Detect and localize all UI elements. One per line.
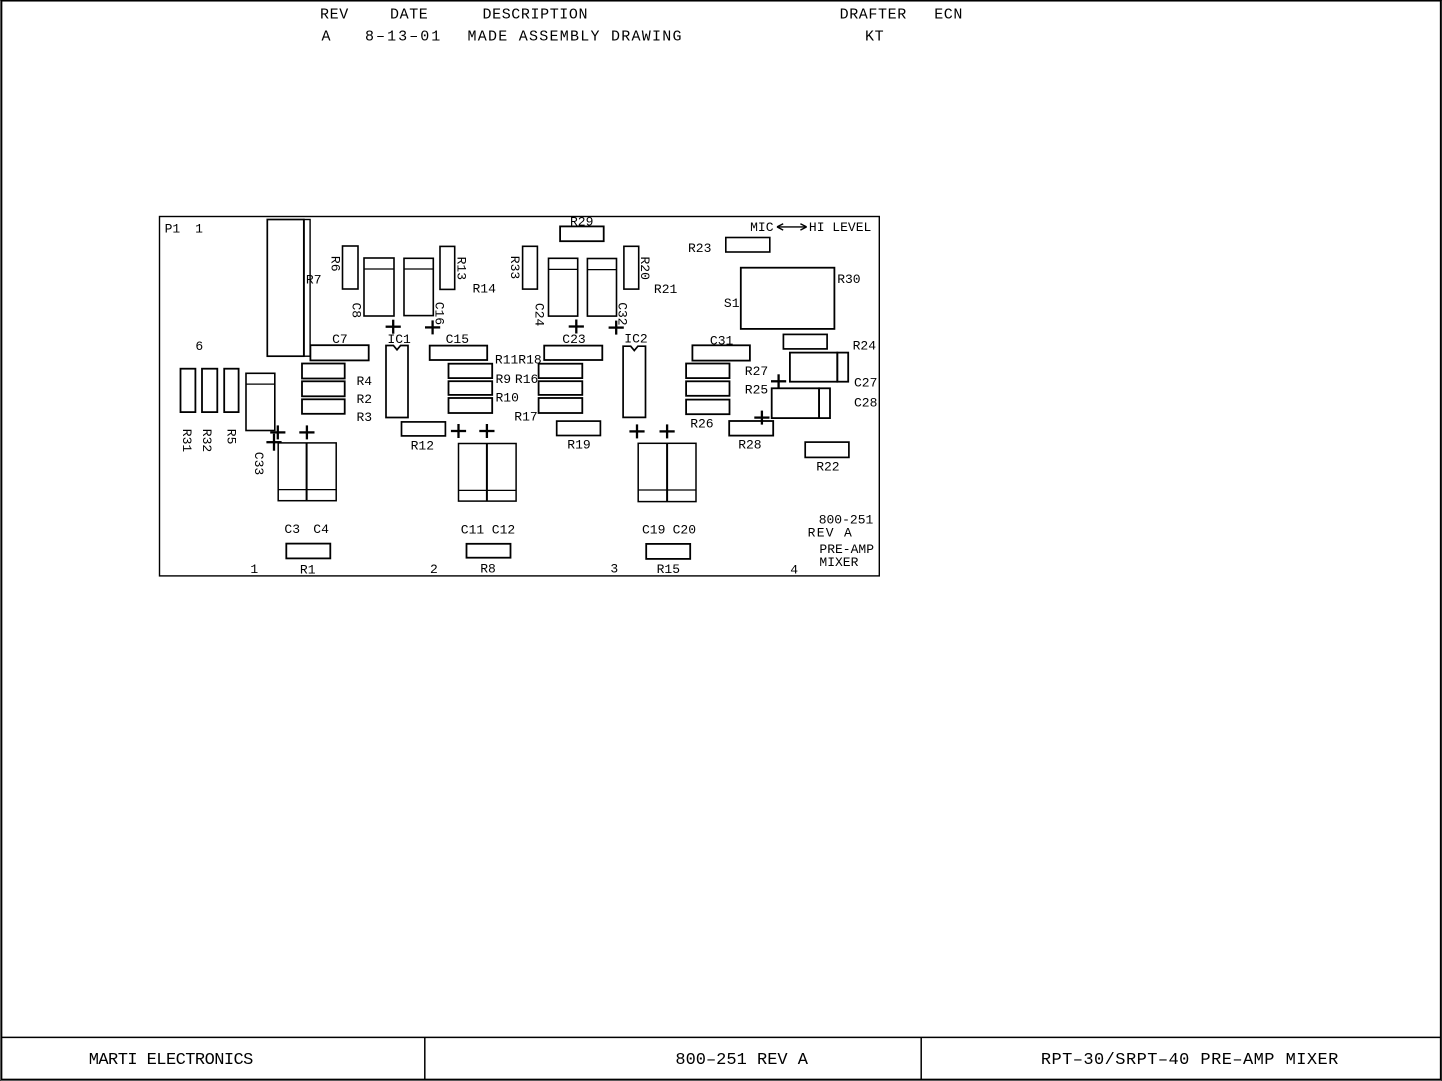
footer strip top line	[2, 1036, 1441, 1038]
capacitor C16	[404, 258, 433, 315]
svg-text:DATE: DATE	[390, 7, 428, 24]
svg-text:C3: C3	[284, 522, 300, 537]
svg-text:MIC: MIC	[750, 220, 774, 235]
resistor R2	[302, 381, 345, 396]
svg-text:R7: R7	[306, 273, 322, 288]
resistor R33	[523, 246, 538, 289]
svg-text:R2: R2	[357, 392, 373, 407]
capacitor C28	[772, 388, 830, 418]
resistor R26	[686, 400, 729, 415]
svg-text:P1: P1	[165, 222, 181, 237]
svg-text:C20: C20	[673, 523, 696, 538]
svg-text:R22: R22	[816, 459, 839, 474]
svg-text:R30: R30	[837, 272, 860, 287]
polarity mark C32	[609, 321, 624, 335]
resistor R4	[302, 364, 345, 379]
resistor R20	[624, 246, 639, 289]
svg-text:R21: R21	[654, 282, 678, 297]
svg-text:C11: C11	[461, 522, 485, 537]
polarity mark C11	[451, 424, 466, 438]
op-amp IC1	[386, 346, 408, 418]
svg-text:R4: R4	[357, 374, 373, 389]
svg-text:R28: R28	[738, 438, 761, 453]
svg-text:R1: R1	[300, 563, 316, 578]
connector P1 pin strip	[304, 220, 310, 357]
resistor R9	[449, 381, 493, 395]
svg-text:R13: R13	[453, 257, 468, 280]
svg-text:S1: S1	[724, 296, 740, 311]
resistor R29	[560, 226, 604, 241]
svg-text:1: 1	[250, 562, 258, 577]
svg-text:6: 6	[195, 339, 203, 354]
svg-text:ECN: ECN	[934, 7, 963, 24]
svg-text:HI LEVEL: HI LEVEL	[809, 220, 871, 235]
capacitor C31	[692, 345, 750, 360]
resistor R12	[402, 422, 446, 436]
svg-text:C27: C27	[854, 376, 877, 391]
svg-text:R15: R15	[657, 562, 680, 577]
resistor R18	[539, 364, 583, 378]
capacitor C32	[587, 259, 616, 317]
svg-text:R20: R20	[637, 257, 652, 280]
footer divider 1	[424, 1037, 426, 1079]
polarity mark C28	[754, 411, 769, 425]
polarity mark C20	[660, 424, 675, 438]
svg-text:R17: R17	[514, 409, 537, 424]
resistor R19	[557, 421, 601, 435]
svg-text:R32: R32	[199, 429, 214, 452]
svg-text:R6: R6	[327, 256, 342, 272]
resistor R27	[686, 364, 729, 379]
svg-text:C33: C33	[251, 452, 266, 475]
svg-text:8–13–01: 8–13–01	[365, 29, 442, 46]
resistor R16	[539, 381, 583, 395]
resistor R8	[467, 544, 511, 558]
svg-text:KT: KT	[865, 29, 884, 46]
svg-text:R12: R12	[411, 439, 434, 454]
resistor R17	[539, 398, 583, 413]
svg-text:C4: C4	[313, 522, 329, 537]
svg-text:C28: C28	[854, 396, 877, 411]
polarity mark C24	[569, 320, 584, 334]
svg-text:C19: C19	[642, 523, 665, 538]
resistor R13	[440, 246, 455, 289]
double arrow MIC-HI LEVEL	[777, 224, 807, 230]
polarity mark C19	[629, 424, 644, 438]
board outline	[160, 217, 880, 576]
resistor R22	[805, 442, 849, 457]
svg-text:IC2: IC2	[624, 332, 647, 347]
svg-text:800–251 REV A: 800–251 REV A	[675, 1051, 808, 1070]
svg-text:R8: R8	[480, 561, 496, 576]
svg-text:R3: R3	[357, 410, 373, 425]
svg-text:R5: R5	[224, 429, 239, 445]
resistor R3	[302, 399, 345, 414]
capacitor C24	[549, 258, 578, 316]
svg-text:1: 1	[195, 222, 203, 237]
resistor R11	[449, 364, 493, 378]
svg-text:A: A	[322, 29, 332, 46]
polarity mark C33	[266, 434, 281, 451]
resistor R24	[783, 334, 827, 349]
svg-text:R23: R23	[688, 241, 711, 256]
svg-text:2: 2	[430, 562, 438, 577]
svg-text:R16: R16	[515, 372, 538, 387]
svg-text:RPT–30/SRPT–40 PRE–AMP MIXER: RPT–30/SRPT–40 PRE–AMP MIXER	[1041, 1051, 1339, 1070]
svg-text:4: 4	[790, 563, 798, 578]
resistor R10	[449, 398, 493, 413]
svg-text:R33: R33	[507, 256, 522, 279]
resistor R5	[224, 369, 238, 412]
svg-text:MARTI ELECTRONICS: MARTI ELECTRONICS	[89, 1051, 253, 1070]
svg-text:C8: C8	[349, 303, 364, 319]
capacitor C7	[310, 345, 368, 360]
svg-text:R11R18: R11R18	[495, 353, 542, 368]
resistor R6	[343, 246, 359, 289]
capacitor C8	[364, 258, 394, 316]
capacitors C3 C4 block	[278, 443, 336, 501]
svg-text:C12: C12	[492, 522, 515, 537]
resistor R1	[286, 544, 330, 559]
resistor R31	[181, 369, 196, 412]
svg-text:REV: REV	[320, 7, 349, 24]
svg-text:REV A: REV A	[808, 526, 854, 541]
svg-text:DRAFTER: DRAFTER	[840, 7, 907, 24]
polarity mark C27	[771, 374, 786, 388]
svg-text:R27: R27	[745, 364, 768, 379]
svg-text:MADE ASSEMBLY DRAWING: MADE ASSEMBLY DRAWING	[468, 29, 683, 46]
polarity mark C8	[386, 320, 401, 334]
capacitor C33	[246, 373, 275, 430]
svg-text:C24: C24	[531, 303, 546, 327]
capacitor C23	[544, 346, 602, 360]
capacitor C27	[790, 353, 848, 382]
polarity mark C1	[270, 425, 285, 439]
polarity mark C2	[299, 425, 314, 439]
connector P1 body	[267, 220, 304, 357]
footer divider 2	[920, 1037, 922, 1079]
switch S1	[741, 268, 835, 329]
resistor R28	[729, 421, 773, 436]
svg-text:R31: R31	[179, 429, 194, 453]
polarity mark C12	[479, 424, 494, 438]
svg-text:R14: R14	[473, 282, 497, 297]
svg-text:R9: R9	[496, 372, 512, 387]
resistor R23	[726, 238, 770, 253]
svg-text:R26: R26	[690, 417, 713, 432]
capacitor C15	[430, 346, 488, 360]
op-amp IC2	[623, 346, 645, 417]
resistor R25	[686, 381, 729, 396]
svg-text:3: 3	[610, 562, 618, 577]
svg-text:R24: R24	[853, 339, 877, 354]
resistor R32	[202, 369, 217, 412]
polarity mark C16	[425, 320, 440, 334]
svg-text:R10: R10	[496, 391, 519, 406]
resistor R15	[646, 544, 690, 559]
svg-text:MIXER: MIXER	[819, 555, 858, 570]
svg-text:R19: R19	[567, 438, 590, 453]
svg-text:DESCRIPTION: DESCRIPTION	[483, 7, 589, 24]
svg-text:R25: R25	[745, 382, 768, 397]
capacitors C11 C12 block	[459, 444, 517, 502]
capacitors C19 C20 block	[638, 443, 696, 501]
